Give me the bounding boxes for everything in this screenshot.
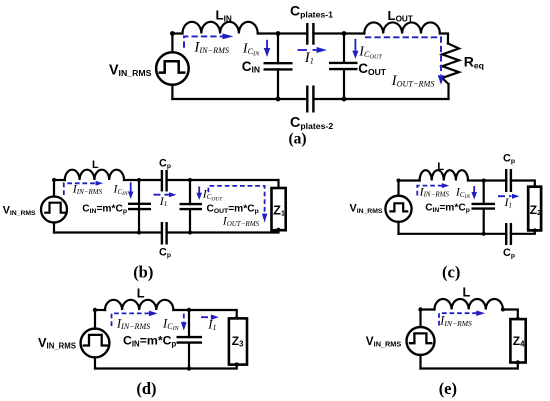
svg-text:CIN=m*Cp: CIN=m*Cp xyxy=(425,203,470,215)
wire source-bottom (a) xyxy=(171,85,173,99)
svg-text:(d): (d) xyxy=(136,379,156,398)
wire bottom rail left of C_p bottom (c) xyxy=(399,233,507,235)
wire node1 down through C_IN to bottom rail (d) xyxy=(188,310,190,337)
wire rail to L (c) xyxy=(399,179,420,181)
node dot node2 bottom (a) xyxy=(342,97,347,102)
node dot top-left (c) xyxy=(397,179,401,183)
wire bottom rail right of C_p bottom (b) xyxy=(167,230,279,233)
wire source-top (c) xyxy=(397,181,399,196)
wire source-top (b) xyxy=(53,180,55,197)
inductor L (e) xyxy=(435,299,503,310)
capacitor C_p top (b) xyxy=(162,170,167,192)
wire node2 to Z_1 (b) xyxy=(190,180,279,188)
current arrow I_IN-RMS dashed (c) xyxy=(417,183,449,195)
svg-text:CIN=m*Cp: CIN=m*Cp xyxy=(82,204,127,216)
node dot Z_3 bottom (d) xyxy=(235,362,239,366)
wire rail to L (e) xyxy=(421,308,435,310)
inductor L (c) xyxy=(420,170,468,180)
wire node1 to Z_3 (d) xyxy=(189,310,237,318)
wire bottom rail right of C_plates-2 (a) xyxy=(313,98,448,100)
current arrow I_IN-RMS dashed (d) xyxy=(112,311,158,326)
current arrow I_1 dashed (a) xyxy=(298,47,327,53)
svg-text:(e): (e) xyxy=(439,379,457,398)
node dot node1 top (d) xyxy=(187,308,191,312)
capacitor C_IN xyxy=(264,63,293,69)
wire rail to L (b) xyxy=(54,179,65,181)
wire C_p top to Z_2 (c) xyxy=(511,181,535,187)
node dot node2 top (a) xyxy=(342,31,347,36)
wire node1 to C_p top (c) xyxy=(484,179,507,181)
wire node2 down through C_OUT to bottom rail (b) xyxy=(189,180,191,204)
current arrow I_COUT (a) xyxy=(352,39,358,59)
capacitor C_p bottom (b) xyxy=(162,222,167,245)
capacitor C_p top (c) xyxy=(506,169,511,192)
wire L to node1 (b) xyxy=(124,179,139,181)
svg-text:(c): (c) xyxy=(442,263,460,282)
wire node2 to L_OUT (a) xyxy=(344,32,364,34)
wire C_IN to bottom rail (a) xyxy=(277,69,279,99)
capacitor C_IN (b) xyxy=(128,204,151,209)
svg-text:(a): (a) xyxy=(289,131,307,148)
node dot top-left (b) xyxy=(52,178,56,182)
capacitor C_IN (c) xyxy=(472,204,496,209)
wire top rail to L_IN (a) xyxy=(172,32,182,34)
capacitor C_OUT (b) xyxy=(180,204,203,209)
node dot node1 bottom (d) xyxy=(187,366,191,370)
capacitor C_IN (d) xyxy=(177,337,203,343)
voltage source V_IN_RMS (d) xyxy=(81,329,110,358)
current arrow I_IN-RMS dashed (b) xyxy=(64,181,103,195)
current arrow I_OUT-RMS dashed (b) xyxy=(208,186,267,223)
wire source-bottom (d) xyxy=(94,357,96,368)
current arrow I_CIN dashed (d) xyxy=(181,314,187,331)
wire bottom rail left of C_plates-2 (a) xyxy=(172,98,307,100)
resistor R_eq xyxy=(442,44,459,85)
node dot Z_2 bottom (c) xyxy=(533,228,537,232)
wire rail to L (d) xyxy=(95,309,105,311)
wire source-bottom (c) xyxy=(397,222,399,234)
current arrow I_IN-RMS dashed (e) xyxy=(439,310,485,325)
voltage source V_IN_RMS (e) xyxy=(407,327,435,355)
current arrow I_1 dashed (d) xyxy=(201,314,219,320)
wire L_OUT to R_eq (a) xyxy=(440,34,448,44)
node dot node2 bottom (b) xyxy=(188,231,192,235)
wire L_IN to node1 (a) xyxy=(258,32,278,34)
load Z_4 xyxy=(510,319,525,362)
current arrow I_CIN (c) xyxy=(471,186,477,199)
current arrow I_1 dashed (c) xyxy=(498,194,520,199)
wire C_plates-1 to node2 (a) xyxy=(313,32,344,34)
node dot node2 top (b) xyxy=(188,178,192,182)
inductor L (b) xyxy=(65,170,124,180)
capacitor C_plates-2 xyxy=(307,86,313,113)
current arrow I_COUT (b) xyxy=(196,187,202,201)
node dot node1 top (b) xyxy=(137,178,141,182)
svg-text:L: L xyxy=(137,286,145,301)
node dot node1 top (c) xyxy=(482,179,486,183)
node dot Z_4 top (e) xyxy=(516,317,520,321)
svg-text:L: L xyxy=(437,161,444,173)
wire L to node1 (c) xyxy=(468,179,484,181)
svg-text:L: L xyxy=(92,159,99,171)
svg-text:L: L xyxy=(463,284,471,299)
current arrow I_OUT-RMS dashed (a) xyxy=(365,37,444,85)
node dot node1 top (a) xyxy=(276,31,281,36)
node dot node1 bottom (a) xyxy=(276,97,281,102)
current arrow I_IN-RMS dashed (a) xyxy=(184,34,234,48)
wire source-top (e) xyxy=(419,310,421,328)
wire source-bottom (e) xyxy=(419,355,421,369)
current arrow I_CIN (a) xyxy=(264,40,270,57)
wire bottom rail (d) xyxy=(95,365,237,369)
load Z_3 xyxy=(229,318,247,364)
node dot top-left (a) xyxy=(170,31,175,36)
wire source-top (d) xyxy=(94,310,96,329)
node dot Z_4 bottom (e) xyxy=(516,360,520,364)
node dot Z_1 bottom (b) xyxy=(277,228,281,232)
capacitor C_OUT xyxy=(329,63,358,69)
wire C_p top to node2 (b) xyxy=(167,179,190,181)
node dot node1 bottom (c) xyxy=(482,232,486,236)
wire node1 to C_p top (b) xyxy=(139,179,162,181)
node dot node1 bottom (b) xyxy=(137,231,141,235)
wire R_eq to bottom rail (a) xyxy=(447,84,449,99)
node dot L end (e) xyxy=(501,308,505,312)
capacitor C_p bottom (c) xyxy=(506,223,511,245)
wire node1 down through C_IN to bottom rail (b) xyxy=(138,180,140,233)
node dot Z_2 top (c) xyxy=(533,185,537,189)
svg-text:(b): (b) xyxy=(133,263,153,282)
wire bottom rail right of C_p bottom (c) xyxy=(511,230,535,233)
wire L to Z_4 (e) xyxy=(503,310,518,320)
load Z_2 xyxy=(528,187,541,231)
wire bottom rail left of C_p bottom (b) xyxy=(54,231,162,233)
voltage source V_IN_RMS (a) xyxy=(156,52,189,85)
inductor L (d) xyxy=(105,300,173,310)
wire source-bottom (b) xyxy=(53,223,55,233)
node dot Z_1 top (b) xyxy=(277,187,281,191)
wire node1 down to C_IN (a) xyxy=(277,34,279,64)
voltage source V_IN_RMS (c) xyxy=(385,196,411,222)
current arrow I_CIN (b) xyxy=(128,182,134,199)
current arrow I_1 dashed (b) xyxy=(154,192,177,197)
load Z_1 xyxy=(272,188,286,230)
wire C_OUT to bottom rail (a) xyxy=(343,69,345,99)
wire node2 down to C_OUT (a) xyxy=(343,34,345,63)
wire node1 down through C_IN to bottom rail (c) xyxy=(483,181,485,204)
capacitor C_plates-1 xyxy=(307,23,313,45)
wire node1 to C_plates-1 (a) xyxy=(278,32,307,34)
wire bottom rail (e) xyxy=(421,363,518,369)
node dot top-left (d) xyxy=(93,308,97,312)
svg-text:CIN=m*Cp: CIN=m*Cp xyxy=(123,334,176,349)
wire source-top to rail (a) xyxy=(171,34,173,53)
wire L to node1 (d) xyxy=(173,309,189,311)
voltage source V_IN_RMS (b) xyxy=(41,197,67,223)
node dot top-left (e) xyxy=(418,307,422,311)
inductor L_IN xyxy=(183,22,258,34)
inductor L_OUT xyxy=(364,22,440,33)
node dot Z_3 top (d) xyxy=(235,316,239,320)
